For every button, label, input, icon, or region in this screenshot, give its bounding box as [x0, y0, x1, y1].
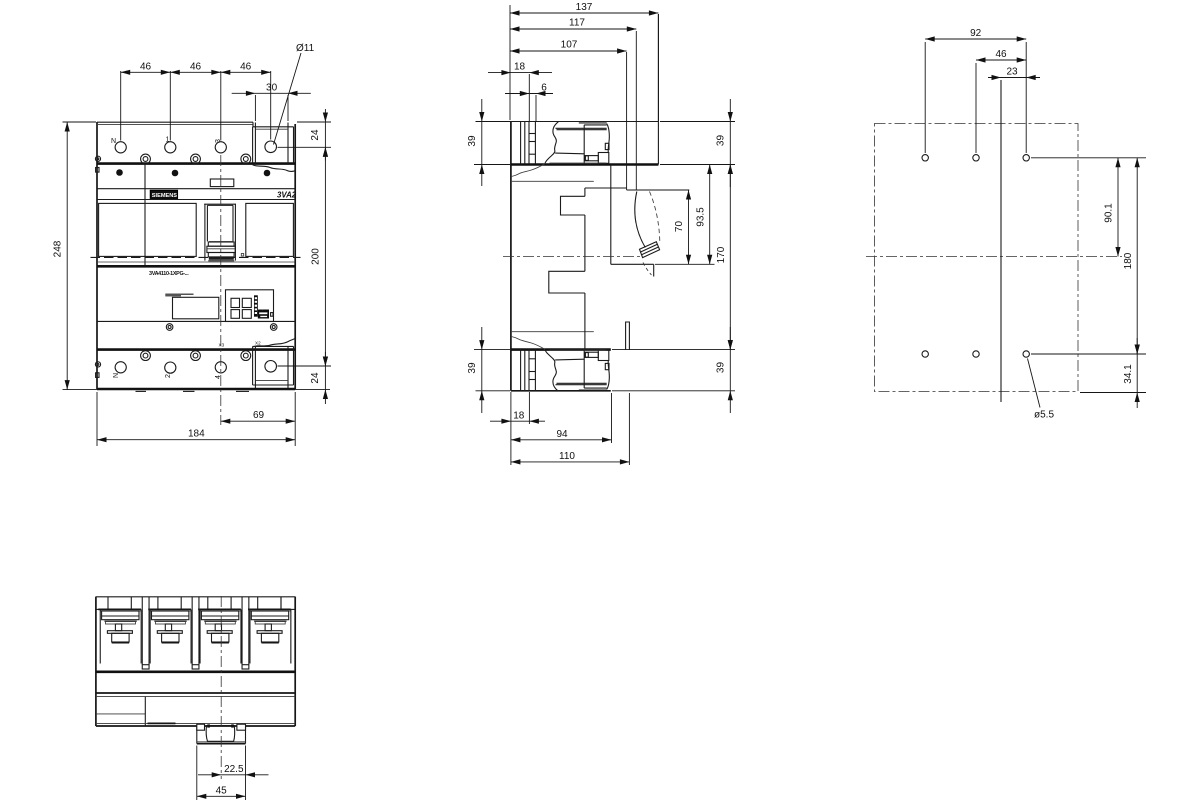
dimension 45	[197, 795, 246, 797]
terminal bay 3	[198, 597, 241, 664]
svg-text:70: 70	[674, 221, 685, 233]
small window rect	[210, 179, 234, 187]
side centerline (dash-dot)	[503, 256, 640, 258]
dimension 94	[511, 439, 612, 441]
REAR VIEW DIMENSIONS	[925, 28, 1146, 421]
svg-text:107: 107	[561, 40, 578, 51]
svg-text:N: N	[111, 138, 116, 145]
top terminal hole 4th pole	[265, 141, 277, 153]
left edge extension up	[509, 5, 511, 120]
handle window left edge	[610, 165, 612, 265]
svg-text:18: 18	[513, 410, 525, 421]
dimension 39 (left bottom)	[481, 327, 483, 413]
4th pole top break line (wavy)	[253, 165, 296, 172]
side terminal shroud front edge	[657, 14, 659, 165]
dimension 46	[976, 59, 1026, 61]
svg-text:22.5: 22.5	[224, 764, 244, 775]
dimension 22.5	[198, 774, 269, 776]
svg-text:46: 46	[140, 61, 152, 72]
svg-text:N: N	[113, 373, 120, 378]
lower accessory tab	[626, 322, 630, 350]
svg-text:6: 6	[541, 83, 547, 94]
side mounting face (left edge)	[510, 122, 512, 391]
ext for 137	[657, 14, 659, 121]
svg-text:170: 170	[716, 246, 727, 263]
dimension 90.1	[1117, 158, 1119, 257]
dimension 39 (left top)	[481, 99, 483, 186]
lower notch	[549, 271, 585, 293]
mounting feet dashes	[136, 390, 147, 392]
BOTTOM VIEW DIMENSIONS	[197, 746, 269, 800]
body front seam with notches	[584, 188, 586, 196]
escutcheon top line	[585, 187, 627, 189]
dimension 137	[510, 12, 658, 14]
lower screw left	[166, 324, 173, 331]
handle lower dashed arc	[643, 263, 652, 276]
toggle channel inner	[206, 205, 208, 241]
svg-text:180: 180	[1123, 252, 1134, 269]
mounting hole top 3	[1023, 155, 1029, 161]
bottom terminal cover line (thick)	[97, 348, 295, 351]
ETU label marks	[165, 293, 193, 295]
breaker outline (phantom dash-dot rect)	[875, 124, 1079, 392]
extensions for 92/46/23	[924, 42, 926, 153]
tab extensions	[196, 746, 198, 800]
svg-text:39: 39	[467, 362, 478, 374]
side top line	[479, 121, 658, 123]
line under accessory section	[97, 320, 295, 322]
base plate line (thick)	[96, 670, 295, 673]
dimension 117	[510, 28, 636, 30]
fixing dot 3	[264, 170, 271, 177]
bottom view outer box	[95, 597, 97, 726]
top terminal hole N	[115, 142, 126, 153]
dimension 248	[66, 122, 68, 390]
svg-text:46: 46	[995, 49, 1007, 60]
bottom terminal hole N	[115, 362, 126, 373]
svg-text:248: 248	[53, 240, 64, 257]
left edge notch top	[96, 168, 99, 173]
keypad buttons 2x2	[231, 298, 240, 307]
horizontal centerline	[866, 256, 1122, 258]
dimension 110	[511, 461, 630, 463]
right 39 top extensions	[660, 121, 735, 123]
terminal bay 2	[148, 597, 191, 664]
small square right of handle	[241, 254, 243, 257]
bottom edge	[96, 725, 295, 727]
toggle handle	[209, 241, 234, 243]
svg-text:Ø11: Ø11	[296, 43, 315, 54]
top cover screw 3	[241, 154, 251, 164]
REAR VIEW	[866, 80, 1122, 402]
svg-text:46: 46	[240, 61, 252, 72]
svg-text:30: 30	[266, 82, 278, 93]
ext for 107	[626, 52, 628, 190]
svg-text:117: 117	[569, 18, 585, 29]
left edge pin bottom	[95, 362, 100, 367]
thin joint line	[97, 261, 295, 263]
keypad label block (black with dashes)	[258, 310, 269, 319]
terminal bay 1	[98, 597, 141, 664]
keypad led strip (black with windows)	[254, 295, 258, 316]
barrier 3	[242, 597, 249, 669]
left edge pin top	[95, 156, 100, 161]
svg-text:39: 39	[716, 135, 727, 147]
handle arc dashed (swing path)	[650, 192, 660, 242]
dimension 92	[925, 38, 1026, 40]
svg-text:93.5: 93.5	[696, 207, 707, 227]
top cover screw 1	[141, 154, 151, 164]
svg-text:1: 1	[166, 137, 170, 144]
side upper thick line	[511, 163, 659, 166]
dimension 69	[221, 420, 295, 422]
dimension 107	[510, 50, 627, 52]
bottom cover screw 3	[241, 351, 251, 361]
svg-text:45: 45	[216, 786, 228, 797]
bottom cover screw 2	[191, 351, 201, 361]
keypad module frame	[226, 290, 274, 322]
front centerline (vertical dash-dot)	[220, 155, 222, 425]
left 39 top extensions	[476, 121, 511, 123]
mounting hole bottom 3	[1023, 351, 1029, 357]
dimension 184 extensions	[96, 392, 98, 446]
svg-text:24: 24	[310, 372, 321, 384]
svg-text:39: 39	[716, 362, 727, 374]
bottom terminal hole 4th pole	[265, 361, 277, 373]
rail clip	[206, 726, 234, 742]
dimension 24 (bottom right) extensions	[278, 365, 332, 367]
mid section right cover rect	[246, 203, 294, 256]
4th pole bottom break line (wavy)	[253, 338, 296, 347]
dimension 18 (top)	[488, 72, 552, 74]
dimension 39 (right bottom)	[729, 327, 731, 413]
dimension 39 (right top)	[729, 99, 731, 187]
left edge notch bottom	[96, 373, 99, 378]
dimension 6	[505, 93, 553, 95]
mounting hole top 2	[973, 155, 979, 161]
front body right edge	[294, 124, 296, 389]
bottom view centerline	[220, 596, 222, 779]
right 39 bottom extensions	[612, 349, 735, 351]
svg-text:110: 110	[559, 451, 575, 462]
dimension 46 (pole pitch 1)	[121, 71, 171, 73]
fixing dot 1	[116, 169, 123, 176]
FRONT VIEW DIMENSIONS	[53, 43, 331, 446]
svg-text:39: 39	[467, 135, 478, 147]
4th pole bottom box opening edges	[254, 346, 256, 389]
fixing dot 2	[172, 170, 179, 177]
top terminal cluster	[511, 122, 609, 182]
dimension 180	[1136, 158, 1138, 354]
toggle channel	[204, 204, 206, 261]
nameplate (black)	[150, 190, 177, 198]
terminal cover line (thick)	[97, 162, 295, 165]
dimension 93.5	[709, 165, 711, 265]
horizontal line under nameplate row	[97, 188, 295, 190]
bottom extensions	[510, 392, 512, 465]
SIDE VIEW	[479, 14, 689, 391]
vertical reference line	[1000, 80, 1002, 402]
dimension 34.1	[1136, 338, 1138, 408]
svg-text:ø5.5: ø5.5	[1034, 410, 1054, 421]
dimension 30	[232, 92, 311, 94]
bottom terminal cluster (mirror)	[511, 332, 609, 392]
dimension 248 extensions	[63, 121, 97, 123]
dimension 24 (bottom right)	[324, 352, 326, 404]
display window	[173, 297, 219, 319]
bottom terminal hole 2	[165, 362, 176, 373]
BOTTOM VIEW	[96, 596, 295, 779]
svg-text:2: 2	[165, 374, 172, 378]
dimension 30 extension lines	[254, 95, 256, 121]
top terminal hole 3	[215, 142, 226, 153]
4th pole top box frame	[253, 122, 294, 163]
dimension 46 (pole pitch 2)	[170, 71, 221, 73]
side lower thick line	[511, 348, 611, 351]
dimension 24 (top right) extensions	[297, 121, 331, 123]
svg-text:23: 23	[1006, 66, 1018, 77]
svg-text:92: 92	[970, 28, 982, 39]
barrier 1	[142, 597, 149, 669]
ext for 70/93.5 bottom	[655, 263, 715, 265]
svg-text:X2: X2	[255, 341, 261, 346]
left 39 bottom extensions	[474, 349, 510, 351]
svg-text:24: 24	[310, 129, 321, 141]
cover joint dashed thick line	[91, 256, 301, 258]
4th pole top box opening edges	[254, 123, 256, 164]
handle window bottom	[611, 263, 654, 265]
front bottom edge (thick)	[97, 388, 295, 391]
SIDE VIEW DIMENSIONS	[467, 2, 735, 465]
keypad tiny square	[271, 313, 273, 317]
accessory cover top edge (thick)	[97, 265, 295, 268]
svg-text:94: 94	[556, 429, 568, 440]
svg-text:200: 200	[311, 248, 322, 265]
dimension 69 extensions	[294, 392, 296, 446]
upper notch	[561, 196, 585, 215]
front body top edge (double)	[97, 121, 253, 123]
mid section left cover rect	[99, 203, 197, 256]
handle grip (OFF position, rotated)	[640, 242, 660, 258]
mounting plane line with feet	[96, 692, 295, 694]
dimension 170	[729, 165, 731, 350]
mounting hole bottom 1	[922, 351, 928, 357]
mounting hole bottom 2	[973, 351, 979, 357]
svg-text:90.1: 90.1	[1104, 203, 1115, 223]
seam line left	[144, 164, 146, 267]
dimension 23	[988, 77, 1040, 79]
extensions for 90.1/180/34.1	[1031, 157, 1146, 159]
svg-text:3VA2: 3VA2	[277, 190, 297, 199]
barrier 2	[192, 597, 199, 669]
dimension 46 (pole pitch 3)	[221, 71, 271, 73]
svg-text:184: 184	[188, 429, 205, 440]
mounting hole top 1	[922, 155, 928, 161]
FRONT VIEW	[91, 122, 301, 425]
svg-text:18: 18	[514, 62, 526, 73]
handle window right lip	[653, 264, 655, 276]
lower cover lines	[96, 696, 295, 698]
svg-text:3VA4110-1XPG-...: 3VA4110-1XPG-...	[149, 271, 189, 277]
4th pole bottom box frame	[253, 346, 294, 385]
bottom cover screw 1	[141, 351, 151, 361]
handle arc solid (ON position edge)	[635, 192, 646, 248]
svg-text:46: 46	[190, 61, 202, 72]
dimension 18 (bottom)	[490, 420, 545, 422]
svg-text:SIEMENS: SIEMENS	[152, 193, 177, 199]
top terminal hole 1	[165, 142, 176, 153]
svg-text:137: 137	[576, 2, 593, 13]
svg-text:69: 69	[253, 410, 265, 421]
ext for 18/6 top	[528, 74, 530, 122]
corner ledges	[97, 608, 109, 610]
dimension 70	[688, 190, 690, 264]
dimension 24 (top right)	[324, 109, 326, 161]
ext for 117	[635, 31, 637, 190]
side bottom edge	[511, 390, 611, 392]
lower screw right	[270, 324, 277, 331]
svg-text:X3: X3	[219, 343, 225, 348]
top cover screw 2	[191, 154, 201, 164]
terminal bay 4	[248, 597, 291, 664]
tab corner notches	[197, 724, 205, 730]
DIN rail tab	[196, 726, 198, 744]
svg-text:34.1: 34.1	[1123, 364, 1134, 384]
dimension 200 (hole to hole)	[324, 147, 326, 366]
bottom terminal hole 4	[215, 362, 226, 373]
extension lines for 46-chain	[120, 71, 122, 141]
line above mid section	[97, 199, 295, 201]
dimension 184	[97, 439, 295, 441]
front body left edge	[96, 122, 98, 389]
